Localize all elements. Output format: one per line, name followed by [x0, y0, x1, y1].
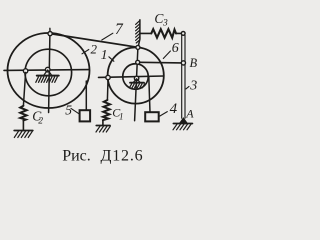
pulley 1 support ground bar	[130, 82, 144, 84]
wheel 2 pin support triangle	[44, 70, 51, 75]
wheel 2 inner rim	[25, 49, 72, 96]
svg-text:3: 3	[189, 79, 197, 94]
spring C1 lower tail	[102, 120, 104, 125]
wall hatching	[136, 21, 140, 43]
spring C3	[151, 29, 176, 38]
block 4	[145, 112, 159, 121]
node on rod at bar 6	[181, 61, 185, 65]
ground bar under C1	[96, 125, 110, 127]
ground hatching under C1	[96, 126, 110, 132]
rod 3 right edge	[184, 35, 186, 118]
wall line above pulley 1	[138, 20, 140, 48]
block 5	[80, 110, 91, 121]
cord to spring C2	[23, 73, 25, 106]
svg-text:6: 6	[172, 41, 179, 56]
spring C2 lower tail	[22, 121, 24, 131]
svg-text:5: 5	[65, 103, 72, 118]
rod 3 left edge	[181, 35, 183, 118]
leader line label 3	[186, 86, 189, 89]
ground hatching under rod	[173, 124, 191, 130]
ground bar under rod	[173, 123, 192, 125]
leader line label 2	[82, 50, 89, 54]
svg-text:Д12.6: Д12.6	[101, 147, 144, 164]
rod top corner node	[181, 32, 185, 36]
wheel 2 vertical diameter	[49, 34, 50, 113]
cord 7	[50, 34, 138, 48]
spring C1	[103, 100, 110, 120]
ground bar under C2	[14, 130, 33, 132]
svg-text:2: 2	[38, 117, 43, 127]
svg-text:1: 1	[101, 48, 108, 63]
wheel 2 top node	[48, 31, 52, 35]
svg-text:7: 7	[115, 21, 124, 38]
svg-text:Рис.: Рис.	[62, 147, 91, 164]
ground hatching under C2	[14, 131, 32, 137]
bar 6	[140, 61, 182, 64]
leader line label 4	[160, 112, 167, 116]
cord to block 5	[85, 81, 87, 110]
svg-text:В: В	[190, 56, 198, 70]
pulley 1 outer rim	[108, 47, 164, 103]
leader line label 7	[102, 33, 113, 40]
pulley 1 pin support triangle	[134, 79, 140, 82]
cord to spring C1	[106, 80, 109, 100]
leader line label 6	[163, 51, 170, 59]
leader line label 1	[109, 57, 114, 62]
wheel 2 center node	[45, 67, 50, 72]
svg-text:1: 1	[119, 111, 124, 121]
wheel 2 support hatching	[36, 77, 58, 82]
pulley 1 inner-top node	[136, 60, 140, 64]
pulley 1 vertical line	[135, 48, 138, 121]
pulley 1 inner rim	[123, 64, 149, 90]
wheel 2 support ground bar	[37, 75, 59, 77]
rod bottom support triangle	[180, 118, 188, 123]
svg-text:4: 4	[170, 101, 178, 117]
leader line label 5	[71, 108, 80, 114]
pulley 1 top node	[136, 45, 140, 49]
svg-text:А: А	[185, 106, 194, 120]
tick above wheel 2 top node	[49, 28, 51, 33]
spring C2	[20, 106, 26, 121]
pulley 1 left node	[106, 75, 110, 79]
cord to block 4	[149, 77, 150, 112]
pulley 1 horizontal diameter	[99, 76, 164, 77]
svg-text:3: 3	[162, 18, 168, 28]
spring C3 right tail	[176, 32, 181, 34]
pulley 1 support hatching	[129, 84, 144, 88]
pulley 1 center node	[134, 76, 138, 80]
svg-text:2: 2	[91, 41, 98, 56]
wheel 2 outer rim	[8, 33, 90, 108]
wheel 2 horizontal diameter	[4, 69, 89, 72]
spring C3 left tail	[140, 32, 151, 34]
wheel 2 left node	[23, 69, 27, 73]
